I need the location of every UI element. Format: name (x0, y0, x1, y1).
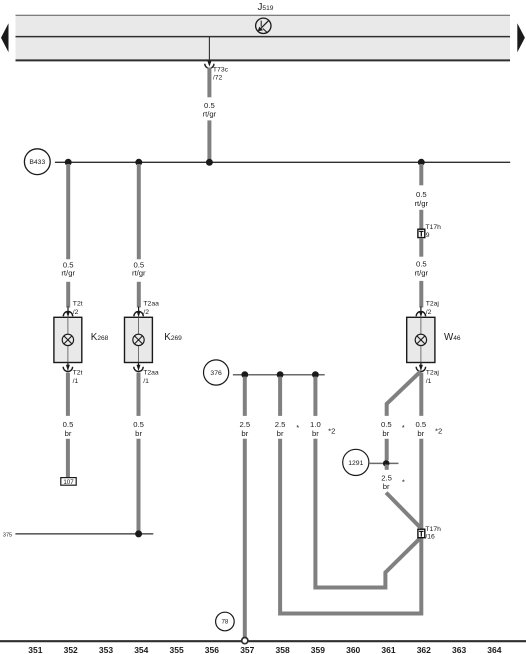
svg-text:1.0: 1.0 (310, 420, 321, 429)
svg-text:78: 78 (221, 619, 228, 626)
svg-text:363: 363 (452, 645, 466, 654)
svg-text:K269: K269 (164, 332, 182, 343)
svg-text:W46: W46 (444, 332, 461, 343)
svg-text:/1: /1 (426, 378, 432, 385)
svg-text:rt/gr: rt/gr (414, 199, 428, 208)
svg-text:/16: /16 (425, 534, 435, 541)
svg-text:K268: K268 (91, 332, 109, 343)
svg-text:/1: /1 (143, 378, 149, 385)
svg-text:br: br (417, 429, 424, 438)
svg-text:T2aj: T2aj (426, 301, 440, 308)
svg-text:0.5: 0.5 (381, 420, 392, 429)
svg-text:/72: /72 (213, 75, 223, 82)
svg-text:rt/gr: rt/gr (203, 110, 217, 119)
svg-text:br: br (277, 429, 284, 438)
svg-text:0.5: 0.5 (63, 420, 74, 429)
svg-text:355: 355 (170, 645, 184, 654)
svg-text:364: 364 (487, 645, 501, 654)
svg-text:*2: *2 (328, 427, 335, 436)
svg-text:br: br (312, 429, 319, 438)
svg-text:T2aa: T2aa (143, 370, 159, 377)
svg-text:356: 356 (205, 645, 219, 654)
svg-text:0.5: 0.5 (416, 190, 427, 199)
svg-text:rt/gr: rt/gr (61, 269, 75, 278)
svg-text:T2t: T2t (73, 370, 83, 377)
svg-text:J519: J519 (258, 2, 274, 13)
svg-text:376: 376 (210, 370, 222, 377)
svg-text:/2: /2 (143, 309, 149, 316)
svg-text:2.5: 2.5 (239, 420, 250, 429)
svg-text:/2: /2 (426, 309, 432, 316)
svg-text:*2: *2 (435, 427, 442, 436)
svg-text:T73c: T73c (213, 66, 229, 73)
svg-text:2.5: 2.5 (381, 473, 392, 482)
svg-text:*: * (402, 423, 405, 432)
svg-text:*: * (296, 423, 299, 432)
svg-text:357: 357 (240, 645, 254, 654)
svg-text:br: br (241, 429, 248, 438)
svg-text:0.5: 0.5 (133, 420, 144, 429)
svg-text:/2: /2 (73, 309, 79, 316)
svg-text:107: 107 (63, 479, 74, 486)
svg-text:362: 362 (417, 645, 431, 654)
svg-text:br: br (383, 482, 390, 491)
svg-text:br: br (65, 429, 72, 438)
svg-text:T2aa: T2aa (143, 301, 159, 308)
svg-text:br: br (135, 429, 142, 438)
svg-text:rt/gr: rt/gr (132, 269, 146, 278)
svg-text:375: 375 (3, 532, 12, 538)
svg-text:0.5: 0.5 (415, 420, 426, 429)
svg-text:T17h: T17h (425, 526, 441, 533)
svg-text:0.5: 0.5 (204, 101, 215, 110)
svg-text:351: 351 (28, 645, 42, 654)
svg-text:1291: 1291 (348, 460, 363, 467)
svg-text:2.5: 2.5 (275, 420, 286, 429)
svg-text:/1: /1 (73, 378, 79, 385)
svg-text:B433: B433 (29, 159, 45, 166)
svg-text:T17h: T17h (425, 224, 441, 231)
svg-text:352: 352 (64, 645, 78, 654)
svg-text:T2aj: T2aj (426, 370, 440, 377)
svg-text:353: 353 (99, 645, 113, 654)
svg-text:0.5: 0.5 (416, 260, 427, 269)
svg-text:br: br (382, 429, 389, 438)
svg-text:*: * (402, 478, 405, 487)
svg-text:359: 359 (311, 645, 325, 654)
svg-text:358: 358 (276, 645, 290, 654)
svg-text:rt/gr: rt/gr (414, 269, 428, 278)
svg-text:9: 9 (426, 232, 430, 239)
svg-text:T2t: T2t (73, 301, 83, 308)
svg-text:360: 360 (346, 645, 360, 654)
svg-text:361: 361 (381, 645, 395, 654)
svg-text:354: 354 (134, 645, 148, 654)
